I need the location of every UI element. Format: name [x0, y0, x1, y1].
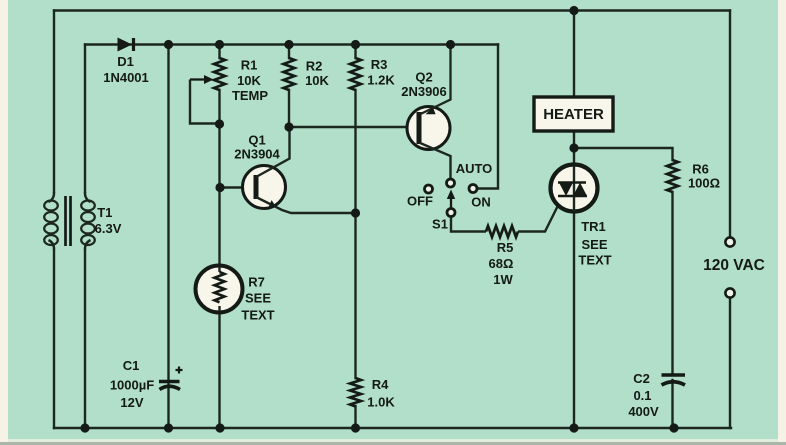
svg-text:S1: S1: [432, 217, 448, 232]
svg-text:T1: T1: [97, 205, 112, 220]
svg-text:TR1: TR1: [581, 219, 606, 234]
wire top rail: [54, 9, 730, 11]
junction C1 bottom: [164, 423, 173, 432]
svg-text:HEATER: HEATER: [543, 106, 604, 123]
svg-text:0.1: 0.1: [633, 388, 651, 403]
resistor R5: [486, 226, 518, 237]
junction R3 top: [351, 40, 360, 49]
terminal 120VAC bottom: [725, 288, 734, 297]
wire rectified rail y=44.5: [85, 43, 498, 45]
heater box: [534, 97, 613, 131]
wire secondary top: [84, 45, 86, 193]
svg-text:10K: 10K: [305, 73, 329, 88]
junction C2 bottom: [669, 423, 678, 432]
junction Q1 base / R7: [215, 183, 224, 192]
switch S1: [425, 179, 487, 232]
svg-text:R6: R6: [692, 162, 709, 177]
svg-text:R2: R2: [306, 59, 323, 74]
svg-text:1.2K: 1.2K: [367, 73, 395, 88]
capacitor C2: [662, 375, 686, 385]
resistor R6: [667, 160, 678, 192]
svg-text:TEMP: TEMP: [232, 88, 268, 103]
wire R2 bottom to Q2 base: [289, 126, 417, 128]
svg-text:10K: 10K: [237, 73, 261, 88]
svg-text:1.0K: 1.0K: [367, 395, 395, 410]
capacitor C1: [159, 367, 183, 390]
svg-text:68Ω: 68Ω: [489, 256, 514, 271]
svg-text:1N4001: 1N4001: [103, 70, 149, 85]
S1 contact ON: [469, 185, 477, 193]
svg-text:1000µF: 1000µF: [110, 378, 154, 393]
wire heater column: [573, 11, 575, 429]
junction Q1 emitter / R3-R4: [351, 208, 360, 217]
diode D1: [118, 38, 134, 52]
wire secondary bottom: [84, 250, 86, 428]
svg-text:R5: R5: [497, 240, 514, 255]
svg-text:SEE: SEE: [245, 291, 271, 306]
wire R1/R7 column: [218, 45, 220, 429]
svg-text:100Ω: 100Ω: [688, 176, 720, 191]
svg-text:ON: ON: [471, 195, 491, 210]
junction R4 bottom: [351, 423, 360, 432]
transformer T1 core: [66, 196, 71, 246]
resistor R4: [350, 378, 361, 407]
svg-text:400V: 400V: [628, 404, 659, 419]
transistor Q1: [220, 127, 356, 213]
svg-text:AUTO: AUTO: [456, 161, 493, 176]
svg-text:R7: R7: [248, 275, 265, 290]
junction R1 wiper: [215, 119, 224, 128]
junction Q2 emitter: [446, 40, 455, 49]
svg-text:TEXT: TEXT: [241, 308, 274, 323]
junction R7 bottom: [215, 423, 224, 432]
junction C1 top: [164, 40, 173, 49]
transformer T1 primary coil: [44, 192, 58, 250]
svg-text:2N3904: 2N3904: [234, 147, 280, 162]
wire R2 column: [288, 45, 290, 128]
wire ON branch: [478, 45, 499, 189]
wire R6 to C2 column: [671, 192, 673, 428]
wire left upper (primary top): [53, 11, 55, 193]
junction triac MT1 bottom: [569, 423, 578, 432]
R1 wiper arrow: [190, 75, 220, 124]
svg-text:1W: 1W: [493, 272, 513, 287]
wire triac to R6: [574, 148, 673, 160]
svg-text:2N3906: 2N3906: [401, 84, 447, 99]
resistor R3: [350, 58, 361, 90]
S1 contact AUTO: [447, 179, 455, 187]
svg-text:C2: C2: [633, 371, 650, 386]
junction R2 top: [284, 40, 293, 49]
wire C1 column: [167, 45, 169, 429]
transistor Q2: [407, 45, 451, 180]
junction T1 secondary bottom: [80, 423, 89, 432]
wire R3/R4 column: [354, 45, 356, 429]
svg-text:12V: 12V: [120, 395, 143, 410]
wire bottom rail: [54, 427, 731, 429]
svg-text:D1: D1: [117, 54, 134, 69]
svg-text:R1: R1: [241, 58, 258, 73]
svg-text:R3: R3: [371, 57, 388, 72]
S1 pole: [447, 209, 455, 217]
svg-text:Q2: Q2: [415, 70, 432, 85]
junction R1 top: [215, 40, 224, 49]
resistor R2: [284, 58, 295, 90]
junction triac MT2 / R6 branch: [569, 143, 578, 152]
transformer T1 secondary coil: [81, 192, 95, 250]
wire left lower (primary bottom): [53, 250, 55, 428]
wire right upper: [729, 11, 731, 238]
svg-text:R4: R4: [372, 377, 389, 392]
triac TR1: [551, 165, 598, 212]
svg-text:6.3V: 6.3V: [95, 221, 122, 236]
svg-text:OFF: OFF: [407, 194, 433, 209]
resistor R1 (pot): [214, 58, 225, 90]
terminal 120VAC top: [725, 237, 734, 246]
svg-text:Q1: Q1: [248, 133, 265, 148]
wire S1 pole to R5: [451, 217, 486, 232]
svg-text:TEXT: TEXT: [578, 253, 611, 268]
svg-text:C1: C1: [123, 358, 140, 373]
wire right lower: [729, 298, 731, 428]
junction R2 bottom: [284, 122, 293, 131]
junction heater top rail: [569, 6, 578, 15]
S1 contact OFF: [425, 185, 433, 193]
S1 wiper arrow: [450, 198, 452, 208]
svg-text:SEE: SEE: [581, 237, 607, 252]
svg-text:120 VAC: 120 VAC: [703, 257, 765, 274]
thermistor R7: [196, 266, 243, 313]
wire R5 to gate: [518, 207, 558, 232]
